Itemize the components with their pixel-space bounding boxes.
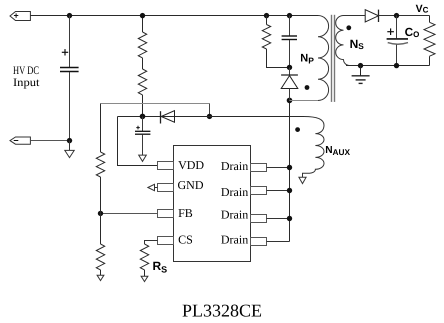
- node snubber top left: [264, 13, 269, 18]
- diode D-vdd: [161, 111, 175, 124]
- wire output bottom rail: [346, 65, 430, 67]
- HV DC Input label: [13, 65, 40, 89]
- resistor divider lower: [96, 214, 104, 276]
- svg-text:HV DC: HV DC: [13, 65, 39, 77]
- svg-text:Drain: Drain: [221, 208, 248, 222]
- node snubber top right: [287, 13, 292, 18]
- wire drain1: [267, 167, 290, 169]
- resistor snubber: [262, 16, 289, 68]
- ground (vdd cap): [139, 155, 147, 161]
- wire FB: [101, 213, 158, 215]
- NAUX polarity dot: [295, 127, 300, 132]
- svg-text:Drain: Drain: [221, 159, 248, 173]
- pin CS box: [158, 237, 174, 245]
- node top rail R-start: [140, 13, 145, 18]
- node FB divider: [98, 211, 103, 216]
- node output cap top: [394, 13, 399, 18]
- pin Drain3 box: [251, 215, 267, 223]
- capacitor C-in plus label: [62, 49, 68, 55]
- ground (RS): [141, 276, 148, 281]
- node drain3: [287, 216, 292, 221]
- svg-text:NAUX: NAUX: [325, 145, 350, 157]
- wire top rail: [30, 15, 318, 17]
- svg-text:Drain: Drain: [221, 232, 248, 246]
- node bottom rail cap: [394, 63, 399, 68]
- transformer primary NP: [318, 16, 329, 101]
- node bottom rail ground: [358, 63, 363, 68]
- node drain2: [287, 188, 292, 193]
- wire CS: [145, 241, 158, 245]
- node snubber RC join: [287, 65, 292, 70]
- resistor RS: [140, 244, 148, 276]
- svg-text:GND: GND: [178, 178, 204, 192]
- wire primary bottom: [290, 100, 319, 102]
- node negative rail: [67, 138, 72, 143]
- NS polarity dot: [346, 25, 351, 30]
- ground (divider): [97, 275, 104, 280]
- wire drain bus: [289, 101, 291, 242]
- wire drain4: [267, 241, 290, 243]
- terminal + (HV DC input positive): [10, 12, 30, 21]
- pin GND arrow: [148, 184, 158, 190]
- node drain1: [287, 165, 292, 170]
- NP polarity dot: [305, 85, 310, 90]
- svg-text:Drain: Drain: [221, 185, 248, 199]
- capacitor snubber: [282, 16, 297, 68]
- pin Drain2 box: [251, 187, 267, 195]
- resistor load: [424, 16, 435, 66]
- pin FB box: [158, 210, 174, 218]
- transformer core: [332, 15, 335, 102]
- capacitor CO plus label: [387, 28, 394, 35]
- capacitor C-in: [60, 16, 79, 141]
- wire drain2: [267, 190, 290, 192]
- resistor R-start lower: [138, 69, 146, 117]
- svg-text:VDD: VDD: [178, 158, 204, 172]
- capacitor C-vdd plus label: [136, 126, 140, 130]
- pin GND box: [158, 184, 174, 192]
- transformer auxiliary NAUX: [303, 117, 325, 178]
- diode output: [365, 10, 378, 22]
- resistor R-start upper: [138, 16, 146, 70]
- terminal - (HV DC input negative): [10, 137, 30, 144]
- svg-text:FB: FB: [178, 206, 193, 220]
- ground (NAUX): [299, 177, 306, 183]
- wire negative rail: [30, 140, 69, 142]
- wire output top: [379, 15, 430, 17]
- wire vdd down to pin: [118, 117, 159, 166]
- wire secondary top: [344, 15, 366, 17]
- diode snubber: [281, 68, 298, 101]
- wire drain3: [267, 218, 290, 220]
- wire B vdd rail: [118, 116, 305, 118]
- svg-text:PL3328CE: PL3328CE: [182, 300, 262, 320]
- pin VDD box: [158, 162, 174, 170]
- node wire A to wire B: [207, 114, 212, 119]
- pin Drain1 box: [251, 164, 267, 172]
- node drain bus top: [287, 98, 293, 104]
- node vdd cap top: [140, 114, 146, 120]
- capacitor C-vdd: [135, 117, 150, 156]
- pin Drain4 box: [251, 238, 267, 246]
- svg-text:CS: CS: [178, 232, 193, 246]
- transformer secondary NS: [336, 16, 350, 66]
- IC box U1: [174, 146, 251, 262]
- capacitor CO: [387, 16, 408, 66]
- resistor divider upper: [96, 104, 104, 214]
- wire A feedback sense: [101, 103, 210, 105]
- ground (input): [65, 141, 74, 158]
- node input cap top: [67, 13, 72, 18]
- svg-text:Input: Input: [13, 77, 40, 89]
- ground earth (secondary): [352, 66, 370, 84]
